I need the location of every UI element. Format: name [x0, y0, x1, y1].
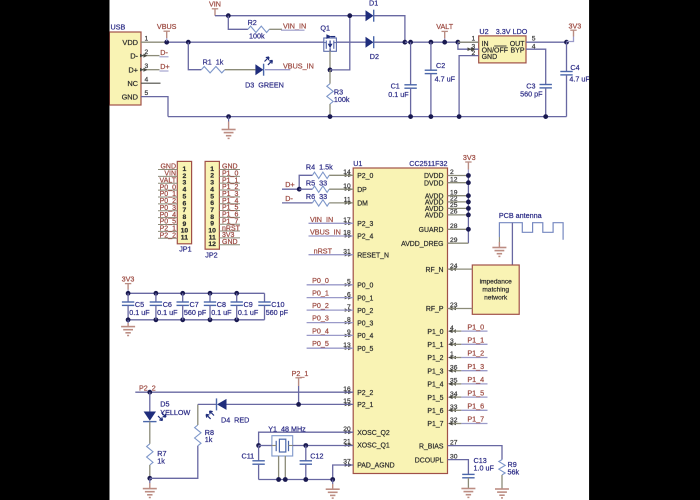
svg-text:56k: 56k: [508, 467, 520, 476]
svg-text:P1_4: P1_4: [467, 375, 484, 384]
net label P1_5: [448, 388, 488, 399]
net label D+: [160, 62, 170, 71]
diode D2: [366, 36, 380, 61]
node 3V3 rail junction: [466, 206, 471, 211]
pin U1 20 XOSC_Q2: [343, 426, 390, 437]
svg-text:D2: D2: [370, 52, 379, 61]
capacitor C1: [388, 40, 417, 117]
svg-text:P1_0: P1_0: [467, 322, 484, 331]
connector JP1: [177, 161, 191, 253]
diode D1: [366, 0, 379, 22]
svg-text:3V3: 3V3: [569, 21, 582, 30]
svg-text:0.1 uF: 0.1 uF: [388, 90, 409, 99]
svg-text:P2_2: P2_2: [160, 232, 176, 239]
svg-text:1: 1: [472, 36, 476, 43]
resistor R5: [299, 178, 353, 192]
capacitor C9: [231, 291, 259, 322]
net label P0_0: [307, 276, 354, 285]
pin JP2 10 nRST: [219, 225, 240, 232]
svg-text:AVDD: AVDD: [425, 213, 444, 220]
pin U1 3 P1_1: [427, 338, 454, 349]
svg-text:D3 GREEN: D3 GREEN: [245, 80, 284, 89]
svg-text:CC2511F32: CC2511F32: [409, 159, 447, 168]
pin JP2 11 3V3: [219, 232, 240, 239]
ground symbol crystal: [326, 480, 340, 499]
wire XOSC_Q1 net: [293, 445, 354, 447]
wire USB GND to ground rail: [141, 97, 168, 117]
pin JP2 12 GND: [219, 239, 240, 246]
svg-text:4.7 uF: 4.7 uF: [435, 75, 456, 84]
wire USB VDD pin stub: [141, 41, 167, 43]
pin U1 7 P0_2: [345, 304, 374, 315]
wire RF_N to matching network: [448, 267, 473, 271]
connector JP2: [205, 161, 219, 259]
resistor R6: [306, 192, 353, 206]
net label VIN_IN to P2_3: [309, 215, 354, 224]
net label P1_2: [448, 349, 488, 360]
svg-text:3.3V LDO: 3.3V LDO: [496, 27, 528, 36]
pin U1 10 DP: [343, 183, 367, 194]
pin U1 31 RESET_N: [343, 248, 389, 259]
net label P1_0: [448, 322, 488, 333]
svg-text:DVDD: DVDD: [424, 173, 444, 180]
node D+ junction: [297, 187, 302, 192]
svg-text:R5 33: R5 33: [306, 178, 327, 187]
pin U2 OUT wire to 3V3: [526, 36, 567, 43]
wire gate to VIN net: [330, 16, 350, 70]
wire antenna to matching network: [511, 223, 513, 265]
node gate R3 junction: [328, 68, 333, 73]
wire XOSC_Q2 net: [259, 432, 354, 445]
ground symbol antenna: [492, 237, 506, 256]
pin JP1 6 P0_2: [158, 198, 177, 205]
net label P1_6: [448, 402, 488, 413]
pin U1 6 P0_1: [345, 291, 374, 302]
svg-text:DP: DP: [357, 187, 367, 194]
wire AVDD_DREG to rail: [448, 242, 469, 244]
wire ground rail: [168, 116, 567, 118]
svg-text:U1: U1: [353, 159, 362, 168]
node crystal ground junction: [330, 477, 335, 482]
node P2_1 junction: [296, 402, 301, 407]
svg-text:100k: 100k: [334, 95, 350, 104]
resistor R8: [195, 404, 214, 445]
svg-text:JP1: JP1: [179, 244, 191, 253]
svg-text:JP2: JP2: [205, 251, 217, 260]
pin U1 11 DM: [344, 197, 368, 208]
wire VALT rail: [405, 41, 479, 43]
antenna PCB antenna: [499, 211, 563, 240]
svg-text:DVDD: DVDD: [424, 180, 444, 187]
pin JP2 7 P1_5: [219, 205, 240, 212]
capacitor C12: [300, 446, 324, 480]
ground symbol LEDs: [143, 478, 157, 497]
svg-text:D+: D+: [160, 62, 169, 71]
ic impedance matching network: [472, 265, 519, 314]
wire U1 power stub: [448, 175, 469, 177]
node C2 ground: [429, 114, 434, 119]
svg-text:USB: USB: [111, 23, 126, 32]
node C12 ground: [303, 477, 308, 482]
wire crystal case lead 1: [278, 456, 280, 480]
svg-text:BYP: BYP: [510, 48, 524, 55]
pin U1 29 AVDD_DREG: [401, 237, 458, 248]
pin JP2 3 P1_1: [219, 177, 240, 184]
net label P0_1: [307, 289, 354, 298]
pin U2 BYP wire to C3: [526, 44, 546, 85]
svg-text:P1_1: P1_1: [427, 342, 443, 349]
svg-text:P0_3: P0_3: [312, 314, 329, 323]
svg-text:YELLOW: YELLOW: [160, 408, 190, 417]
svg-text:P0_2: P0_2: [312, 301, 329, 310]
svg-text:P1_3: P1_3: [427, 368, 443, 375]
svg-text:3V3: 3V3: [122, 275, 135, 284]
svg-text:NC: NC: [127, 79, 138, 88]
pin JP1 3 VALT: [158, 177, 177, 184]
net label D+ at R5: [282, 180, 299, 189]
pin JP2 2 P1_0: [219, 171, 240, 178]
node C12 crystal junction: [303, 443, 308, 448]
wire 3V3 rail at U1: [467, 176, 469, 244]
wire RF_P to matching network: [448, 307, 473, 311]
crystal Y1: [268, 425, 306, 456]
svg-text:0.1 uF: 0.1 uF: [157, 308, 178, 317]
node C3 ground: [543, 114, 548, 119]
pin U1 36 P1_3: [427, 364, 457, 375]
pin U1 37 PAD_AGND: [343, 459, 394, 470]
svg-text:PCB antenna: PCB antenna: [499, 211, 542, 220]
node C11 crystal junction: [256, 443, 261, 448]
svg-text:1: 1: [145, 36, 149, 43]
node R1 branch junction: [186, 40, 191, 45]
net label P1_4: [448, 375, 488, 386]
node VIN junction: [226, 13, 231, 18]
svg-text:D+: D+: [285, 180, 294, 189]
pin U1 18 P2_4: [343, 230, 373, 241]
wire U1 power stub: [448, 182, 469, 184]
pin U1 25 AVDD: [425, 202, 458, 213]
wire VDD to VBUS junction: [167, 41, 324, 43]
resistor R9 with R_BIAS wire: [448, 446, 520, 489]
svg-text:GND: GND: [222, 239, 238, 246]
svg-text:P2_3: P2_3: [357, 221, 373, 228]
wire cap bank top rail: [128, 292, 264, 294]
svg-text:R4 1.5k: R4 1.5k: [306, 162, 333, 171]
wire D1 cathode to VALT rail: [374, 16, 405, 43]
svg-text:P1_2: P1_2: [467, 349, 484, 358]
net label VIN_IN: [281, 21, 306, 30]
capacitor C6: [150, 291, 178, 322]
node LED ground junction: [147, 476, 152, 481]
pin JP1 8 P0_4: [158, 212, 177, 219]
svg-text:P1_2: P1_2: [427, 355, 443, 362]
svg-text:100k: 100k: [249, 31, 265, 40]
pin U2 ON/OFF: [458, 42, 479, 51]
svg-text:VDD: VDD: [122, 38, 138, 47]
ground symbol R9: [495, 489, 509, 498]
pin U1 32 P1_7: [427, 417, 457, 428]
svg-text:560 pF: 560 pF: [520, 89, 543, 98]
ground symbol main rail: [222, 117, 236, 139]
capacitor C7: [177, 291, 207, 322]
wire U1 power stub: [448, 195, 469, 197]
node C1 ground: [408, 114, 413, 119]
pin U1 21 XOSC_Q1: [343, 439, 390, 450]
node 3V3 rail junction: [466, 200, 471, 205]
pin U1 16 P2_2: [343, 386, 373, 397]
svg-text:AVDD_DREG: AVDD_DREG: [401, 241, 443, 248]
pin U1 30 DCOUPL: [415, 453, 458, 464]
svg-text:VIN_IN: VIN_IN: [283, 21, 306, 30]
net label P1_3: [448, 362, 488, 373]
net label P0_4: [307, 326, 354, 335]
node 3V3 rail junction: [466, 173, 471, 178]
svg-text:P1_0: P1_0: [427, 329, 443, 336]
capacitor C13 with DCOUPL wire: [448, 456, 495, 488]
svg-text:R2: R2: [248, 18, 257, 27]
pin USB D+ stub: [140, 68, 160, 72]
svg-text:P2_2: P2_2: [139, 384, 156, 393]
svg-text:GND: GND: [482, 54, 498, 61]
pin U1 19 AVDD: [425, 189, 458, 200]
svg-text:RF_N: RF_N: [426, 267, 444, 274]
svg-text:P2_1: P2_1: [292, 369, 309, 378]
node case lead 1: [276, 477, 281, 482]
svg-text:R_BIAS: R_BIAS: [419, 443, 444, 450]
pin JP1 10 P2_1: [158, 226, 177, 233]
LED D3: [245, 57, 284, 89]
svg-text:DCOUPL: DCOUPL: [415, 457, 444, 464]
wire crystal left lead: [259, 445, 272, 447]
wire D3 to VBUS_IN: [265, 69, 290, 71]
pin U1 24 RF_N: [426, 263, 458, 274]
svg-text:D4 RED: D4 RED: [221, 415, 249, 424]
svg-text:PAD_AGND: PAD_AGND: [357, 463, 394, 470]
svg-text:P0_0: P0_0: [312, 276, 329, 285]
svg-text:P0_2: P0_2: [357, 308, 373, 315]
svg-text:XOSC_Q2: XOSC_Q2: [357, 430, 390, 437]
regulator U2: [479, 27, 528, 63]
svg-text:nRST: nRST: [314, 246, 333, 255]
pin U1 33 P1_6: [427, 404, 457, 415]
svg-text:RESET_N: RESET_N: [357, 252, 389, 259]
node R3 ground junction: [328, 114, 333, 119]
svg-text:P1_5: P1_5: [467, 388, 484, 397]
svg-text:P1_6: P1_6: [467, 402, 484, 411]
node VBUS junction: [164, 40, 169, 45]
pin U1 34 P1_5: [427, 391, 457, 402]
capacitor C3: [520, 81, 552, 116]
wire crystal ground rail: [259, 479, 333, 481]
node P2_2 LED branch: [147, 390, 152, 395]
pin JP2 1 GND: [219, 164, 240, 171]
node cap bank ground left: [126, 317, 131, 322]
resistor R4: [299, 162, 353, 189]
node ground rail USB junction: [226, 114, 231, 119]
white schematic page: [109, 0, 589, 500]
wire D4 to P2_1 pin: [227, 403, 354, 405]
svg-text:D-: D-: [130, 51, 138, 60]
svg-text:Q1: Q1: [320, 23, 330, 32]
pin JP1 9 P0_5: [158, 219, 177, 226]
svg-text:0.1 uF: 0.1 uF: [129, 308, 150, 317]
pin U1 17 P2_3: [343, 217, 373, 228]
svg-text:P0_5: P0_5: [357, 346, 373, 353]
node 3V3 rail junction: [466, 227, 471, 232]
resistor R7: [147, 422, 167, 479]
pin U2 IN: [458, 36, 479, 43]
svg-text:3V3: 3V3: [463, 153, 476, 162]
LED D4: [206, 398, 249, 424]
wire VIN down to R2: [228, 16, 248, 30]
svg-text:XOSC_Q1: XOSC_Q1: [357, 443, 390, 450]
svg-text:P1_3: P1_3: [467, 362, 484, 371]
pin JP1 2 VIN: [158, 171, 177, 178]
svg-text:DM: DM: [357, 201, 368, 208]
svg-text:P1_6: P1_6: [427, 408, 443, 415]
ground symbol cap bank: [121, 320, 135, 336]
power flag VALT: [436, 22, 454, 44]
svg-text:4.7 uF: 4.7 uF: [569, 74, 590, 83]
node case lead 2: [283, 477, 288, 482]
svg-text:1.0 uF: 1.0 uF: [474, 464, 495, 473]
resistor R2: [248, 18, 270, 41]
wire crystal case lead 2: [284, 456, 286, 480]
pin U1 4 P1_0: [427, 325, 454, 336]
svg-text:R6 33: R6 33: [306, 192, 327, 201]
svg-text:RF_P: RF_P: [426, 306, 444, 313]
net label D-: [160, 48, 169, 57]
node 3V3 output junction: [564, 40, 569, 45]
pin U1 2 DVDD: [424, 169, 454, 180]
resistor R3: [327, 70, 350, 117]
net label D- at R6: [282, 194, 312, 203]
net label P0_5: [307, 339, 354, 348]
svg-text:D-: D-: [285, 194, 293, 203]
svg-text:P1_7: P1_7: [427, 421, 443, 428]
capacitor C8: [204, 291, 232, 322]
pin U2 GND: [459, 50, 479, 117]
svg-text:P0_4: P0_4: [357, 333, 373, 340]
pin U1 1 P1_2: [427, 351, 454, 362]
net label nRST to RESET_N: [309, 246, 354, 255]
svg-text:impedance: impedance: [480, 278, 513, 285]
power flag 3V3 at U1: [463, 153, 476, 175]
svg-text:1k: 1k: [205, 435, 213, 444]
svg-text:C11: C11: [242, 451, 255, 460]
node U2 GND rail junction: [457, 114, 462, 119]
svg-text:560 pF: 560 pF: [184, 308, 207, 317]
wire D2 cathode to VALT rail: [374, 41, 405, 43]
pin JP2 6 P1_4: [219, 198, 240, 205]
power flag VBUS: [157, 22, 177, 41]
node U2 input junction: [456, 40, 461, 45]
node 3V3 rail junction: [466, 180, 471, 185]
svg-text:matching: matching: [482, 286, 509, 293]
pin USB NC stub: [141, 82, 161, 84]
pin U1 22 AVDD: [425, 196, 458, 207]
node 3V3 rail junction: [466, 213, 471, 218]
pin JP1 7 P0_3: [158, 205, 177, 212]
pin U1 14 P2_0: [343, 169, 373, 180]
svg-text:11: 11: [181, 235, 188, 242]
svg-text:VBUS: VBUS: [157, 22, 177, 31]
net label P2_2 wire: [135, 384, 353, 393]
border crop bars: [0, 0, 109, 500]
transistor Q1: [320, 23, 336, 51]
svg-text:P2_0: P2_0: [357, 173, 373, 180]
wire VIN to D1: [215, 15, 366, 17]
wire U1 power stub: [448, 201, 469, 203]
net label P0_2: [307, 301, 354, 310]
svg-text:VBUS_IN: VBUS_IN: [310, 228, 341, 237]
power flag VIN: [209, 0, 221, 16]
svg-text:P1_4: P1_4: [427, 382, 443, 389]
svg-text:P0_4: P0_4: [312, 326, 329, 335]
svg-text:D-: D-: [160, 48, 168, 57]
transistor Q1 internals: [324, 41, 337, 52]
power flag 3V3 cap bank: [122, 275, 135, 294]
svg-text:GUARD: GUARD: [419, 227, 444, 234]
pin JP2 5 P1_3: [219, 191, 240, 198]
svg-text:12: 12: [208, 241, 216, 248]
svg-text:P1_7: P1_7: [467, 415, 484, 424]
pin U1 9 P0_4: [345, 329, 374, 340]
pin JP1 4 P0_0: [158, 184, 177, 191]
node 3V3 rail junction: [466, 193, 471, 198]
pin JP1 11 P2_2: [158, 232, 177, 239]
wire R1 to D3: [225, 69, 256, 71]
svg-text:P0_5: P0_5: [312, 339, 329, 348]
power flag 3V3 regulator output: [567, 21, 582, 41]
wire R8 bottom to junction: [150, 446, 198, 479]
svg-text:P2_2: P2_2: [357, 390, 373, 397]
ic U1 CC2511F32 body: [353, 159, 447, 474]
svg-text:VIN_IN: VIN_IN: [310, 215, 333, 224]
svg-text:D+: D+: [128, 66, 138, 75]
net label P0_3: [307, 314, 354, 323]
wire Q1 gate down: [329, 51, 331, 70]
LED D5: [143, 392, 190, 421]
svg-text:C2: C2: [436, 61, 445, 70]
pin JP2 4 P1_2: [219, 184, 240, 191]
pin U1 12 DVDD: [424, 176, 458, 187]
pin U1 13 P0_5: [343, 342, 373, 353]
svg-text:P0_3: P0_3: [357, 320, 373, 327]
svg-text:P0_0: P0_0: [357, 283, 373, 290]
svg-text:P2_4: P2_4: [357, 234, 373, 241]
pin USB D- stub: [140, 54, 160, 58]
net label P1_1: [448, 336, 488, 347]
svg-text:P2_1: P2_1: [357, 402, 373, 409]
power flag P2_1: [292, 369, 309, 405]
pin U1 35 P1_4: [427, 378, 457, 389]
svg-text:P0_1: P0_1: [357, 295, 373, 302]
pin U1 28 GUARD: [419, 223, 458, 234]
svg-text:0.1 uF: 0.1 uF: [211, 308, 232, 317]
ground symbol C13: [461, 489, 475, 498]
pin U1 27 R_BIAS: [419, 439, 458, 450]
wire U1 power stub: [448, 228, 469, 230]
wire U1 power stub: [448, 207, 469, 209]
svg-text:VBUS_IN: VBUS_IN: [283, 61, 314, 70]
svg-text:C4: C4: [570, 63, 579, 72]
connector USB: [109, 23, 148, 106]
node D1 D2 join: [403, 40, 408, 45]
wire P2_1 net: [198, 403, 217, 405]
pin JP1 5 P0_1: [158, 191, 177, 198]
capacitor C5: [122, 291, 150, 320]
